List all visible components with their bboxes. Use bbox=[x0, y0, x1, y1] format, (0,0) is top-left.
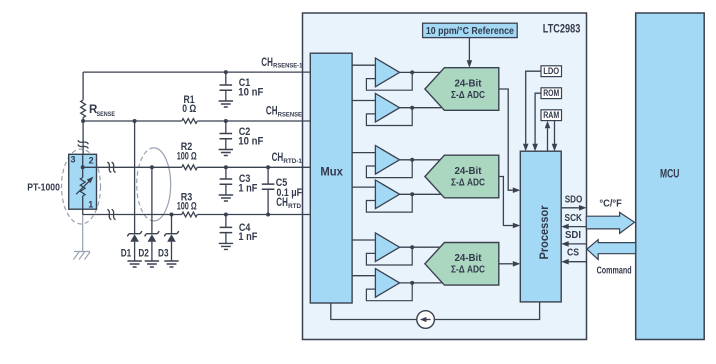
net label CH_RSENSE bbox=[266, 106, 302, 119]
wire buffer A2 output to ADC input bbox=[400, 107, 442, 109]
wire SDI with left arrow bbox=[561, 241, 586, 247]
wire junction down to PT-1000 pin 3 bbox=[82, 121, 84, 154]
wire PT-1000 case to earth ground (gray) bbox=[82, 215, 84, 252]
svg-text:24-Bit: 24-Bit bbox=[455, 165, 482, 177]
svg-text:SDI: SDI bbox=[565, 230, 581, 241]
svg-text:24-Bit: 24-Bit bbox=[455, 252, 482, 264]
svg-text:100 Ω: 100 Ω bbox=[177, 150, 197, 162]
svg-text:PT-1000: PT-1000 bbox=[27, 182, 60, 194]
capacitor C2 10 nF bbox=[220, 121, 264, 150]
capacitor C1 10 nF bbox=[220, 72, 264, 101]
node buffer A4 output junction bbox=[410, 192, 414, 196]
wire excitation current loop Mux to Processor bbox=[331, 302, 540, 320]
node D2 branch junction bbox=[150, 165, 154, 169]
node buffer A6 output junction bbox=[410, 281, 414, 285]
voltage reference block: 10 ppm/degC Reference bbox=[423, 23, 518, 37]
wire Mux output to buffer A2 input bbox=[352, 100, 375, 102]
wire ROM to Processor bbox=[532, 93, 541, 151]
net label CH_RTD bbox=[276, 197, 301, 210]
node C5 top junction bbox=[266, 165, 270, 169]
svg-text:Σ-Δ ADC: Σ-Δ ADC bbox=[451, 176, 485, 188]
wire RSENSE to CH_RSENSE line bbox=[82, 118, 84, 122]
svg-text:Σ-Δ ADC: Σ-Δ ADC bbox=[451, 89, 485, 101]
PT-1000 sensor body bbox=[69, 154, 97, 209]
break marks on CH_RTD-1 wire bbox=[107, 162, 111, 172]
capacitor C3 1 nF bbox=[220, 167, 258, 195]
node buffer A2 output junction bbox=[410, 106, 414, 110]
ground below D3 bbox=[164, 261, 178, 267]
Processor block bbox=[520, 151, 561, 302]
ground below C1 bbox=[219, 101, 233, 107]
node buffer A1 output junction bbox=[410, 70, 414, 74]
cable shield ellipse bbox=[137, 148, 171, 221]
svg-text:10 nF: 10 nF bbox=[238, 136, 263, 148]
node C5 bottom junction bbox=[266, 213, 270, 217]
svg-text:°C/°F: °C/°F bbox=[599, 197, 622, 209]
ground below C4 bbox=[219, 243, 233, 249]
wire Mux output to buffer A6 input bbox=[352, 275, 375, 277]
svg-text:RAM: RAM bbox=[543, 110, 559, 120]
wire SDO with right arrow bbox=[561, 205, 586, 211]
svg-text:ROM: ROM bbox=[543, 88, 559, 98]
wire buffer A5 output to ADC input bbox=[400, 246, 442, 248]
node RSENSE bottom junction bbox=[81, 119, 85, 123]
ground below D1 bbox=[127, 261, 141, 267]
wire SCK with left arrow bbox=[561, 224, 586, 230]
ground below C2 bbox=[219, 150, 233, 156]
svg-text:D1: D1 bbox=[121, 248, 132, 260]
LDO block bbox=[541, 66, 562, 77]
node buffer A3 output junction bbox=[410, 158, 414, 162]
svg-text:LTC2983: LTC2983 bbox=[543, 22, 581, 36]
svg-text:CH: CH bbox=[276, 197, 288, 209]
wire LDO to Processor bbox=[523, 71, 541, 151]
block arrow Command from MCU bbox=[587, 240, 636, 260]
earth ground symbol bbox=[74, 252, 91, 260]
wire Mux output to buffer A4 input bbox=[352, 186, 375, 188]
wire buffer A1 output to ADC input bbox=[400, 71, 442, 73]
node C3 top junction bbox=[224, 165, 228, 169]
capacitor C4 1 nF bbox=[220, 215, 258, 244]
Mux block bbox=[310, 53, 352, 303]
wire Mux output to buffer A1 input bbox=[352, 64, 375, 66]
svg-text:10 ppm/°C Reference: 10 ppm/°C Reference bbox=[426, 25, 514, 37]
op-amp buffer A4 bbox=[366, 180, 412, 212]
wire RAM to Processor (down arrow) bbox=[552, 121, 558, 152]
svg-text:SCK: SCK bbox=[565, 213, 583, 224]
RTD element inside PT-1000 bbox=[76, 154, 93, 214]
op-amp buffer A1 bbox=[366, 58, 412, 90]
MCU block bbox=[636, 13, 705, 340]
svg-text:CH: CH bbox=[266, 106, 278, 118]
capacitor C5 0.1uF bbox=[262, 167, 302, 214]
svg-text:0 Ω: 0 Ω bbox=[182, 103, 196, 115]
svg-text:3: 3 bbox=[70, 155, 75, 165]
svg-text:10 nF: 10 nF bbox=[238, 87, 263, 99]
ground below C3 bbox=[219, 195, 233, 201]
svg-text:Processor: Processor bbox=[537, 205, 551, 259]
ADC U2: 24-Bit sigma-delta ADC bbox=[425, 155, 499, 198]
resistor RSENSE bbox=[81, 100, 115, 118]
wire buffer A6 output to ADC input bbox=[400, 282, 442, 284]
RAM block bbox=[541, 110, 562, 121]
svg-text:RTD-1: RTD-1 bbox=[283, 159, 302, 165]
wire buffer A4 output to ADC input bbox=[400, 193, 442, 195]
svg-text:24-Bit: 24-Bit bbox=[455, 77, 482, 89]
sheath dashed ellipse around PT-1000 sensor bbox=[62, 149, 101, 224]
diode D3 protection to ground bbox=[158, 215, 179, 262]
wire reference to ADC1 with arrow bbox=[467, 38, 473, 68]
net label CH_RTD-1 bbox=[272, 152, 303, 165]
diode D1 protection to ground bbox=[121, 121, 142, 261]
resistor R3 100 Ohm bbox=[177, 192, 198, 217]
node D3 branch junction bbox=[170, 213, 174, 217]
node PT-1000 pin2/3 junction bbox=[81, 165, 85, 169]
wire Processor to RAM (up arrow) bbox=[545, 121, 551, 151]
wire CH_RTD line bbox=[83, 214, 311, 216]
node buffer A5 output junction bbox=[410, 245, 414, 249]
wire CH_RSENSE-1 line (top) bbox=[83, 71, 310, 73]
current source I1 bbox=[417, 311, 435, 329]
svg-text:MCU: MCU bbox=[660, 168, 680, 180]
wire ADC U3 output to Processor bbox=[499, 261, 521, 267]
net label CH_RSENSE-1 bbox=[261, 57, 303, 70]
node D1 branch junction bbox=[133, 119, 137, 123]
svg-text:D3: D3 bbox=[158, 248, 169, 260]
op-amp buffer A5 bbox=[366, 233, 412, 265]
svg-text:1: 1 bbox=[88, 199, 93, 209]
svg-text:SENSE: SENSE bbox=[97, 112, 116, 118]
op-amp buffer A2 bbox=[366, 93, 412, 125]
wire CS with left arrow bbox=[561, 259, 586, 265]
node C4 top junction bbox=[224, 213, 228, 217]
break mark on pin3 wire bbox=[78, 140, 88, 144]
resistor R2 100 Ohm bbox=[177, 141, 198, 170]
svg-text:Σ-Δ ADC: Σ-Δ ADC bbox=[451, 264, 485, 276]
wire CH_RTD-1 line bbox=[83, 166, 311, 168]
op-amp buffer A3 bbox=[366, 146, 412, 178]
svg-text:RTD: RTD bbox=[288, 204, 302, 210]
svg-text:Command: Command bbox=[597, 265, 632, 277]
node C2 top junction bbox=[224, 119, 228, 123]
svg-text:SDO: SDO bbox=[565, 194, 583, 205]
svg-text:1 nF: 1 nF bbox=[238, 231, 257, 243]
diode D2 protection to ground bbox=[138, 167, 159, 261]
svg-text:2: 2 bbox=[89, 156, 94, 166]
block arrow temperature output to MCU bbox=[586, 212, 634, 233]
svg-text:CS: CS bbox=[567, 248, 579, 259]
svg-text:Mux: Mux bbox=[320, 165, 343, 179]
svg-text:100 Ω: 100 Ω bbox=[177, 201, 197, 213]
wire ADC U1 output to Processor bbox=[499, 89, 521, 193]
ADC U1: 24-Bit sigma-delta ADC bbox=[425, 68, 499, 111]
svg-text:RSENSE: RSENSE bbox=[278, 113, 302, 119]
IC LTC2983 outline box bbox=[303, 13, 587, 340]
node C1 top junction bbox=[224, 70, 228, 74]
svg-text:RSENSE-1: RSENSE-1 bbox=[273, 64, 303, 70]
svg-text:LDO: LDO bbox=[543, 66, 559, 76]
svg-text:CH: CH bbox=[272, 152, 284, 164]
wire Mux output to buffer A5 input bbox=[352, 239, 375, 241]
ground below D2 bbox=[145, 261, 159, 267]
break marks on CH_RTD wire bbox=[107, 209, 111, 219]
svg-text:CH: CH bbox=[261, 57, 273, 69]
wire buffer A3 output to ADC input bbox=[400, 159, 442, 161]
wire CH_RSENSE line bbox=[83, 120, 310, 122]
op-amp buffer A6 bbox=[366, 269, 412, 301]
ROM block bbox=[541, 88, 562, 99]
wire from CH_RSENSE-1 down to RSENSE bbox=[82, 72, 84, 100]
svg-text:1 nF: 1 nF bbox=[238, 183, 257, 195]
wire ADC U2 output to Processor bbox=[499, 177, 521, 229]
wire Mux output to buffer A3 input bbox=[352, 152, 375, 154]
ADC U3: 24-Bit sigma-delta ADC bbox=[425, 243, 499, 286]
svg-text:D2: D2 bbox=[138, 248, 149, 260]
resistor R1 0 Ohm bbox=[182, 94, 198, 124]
